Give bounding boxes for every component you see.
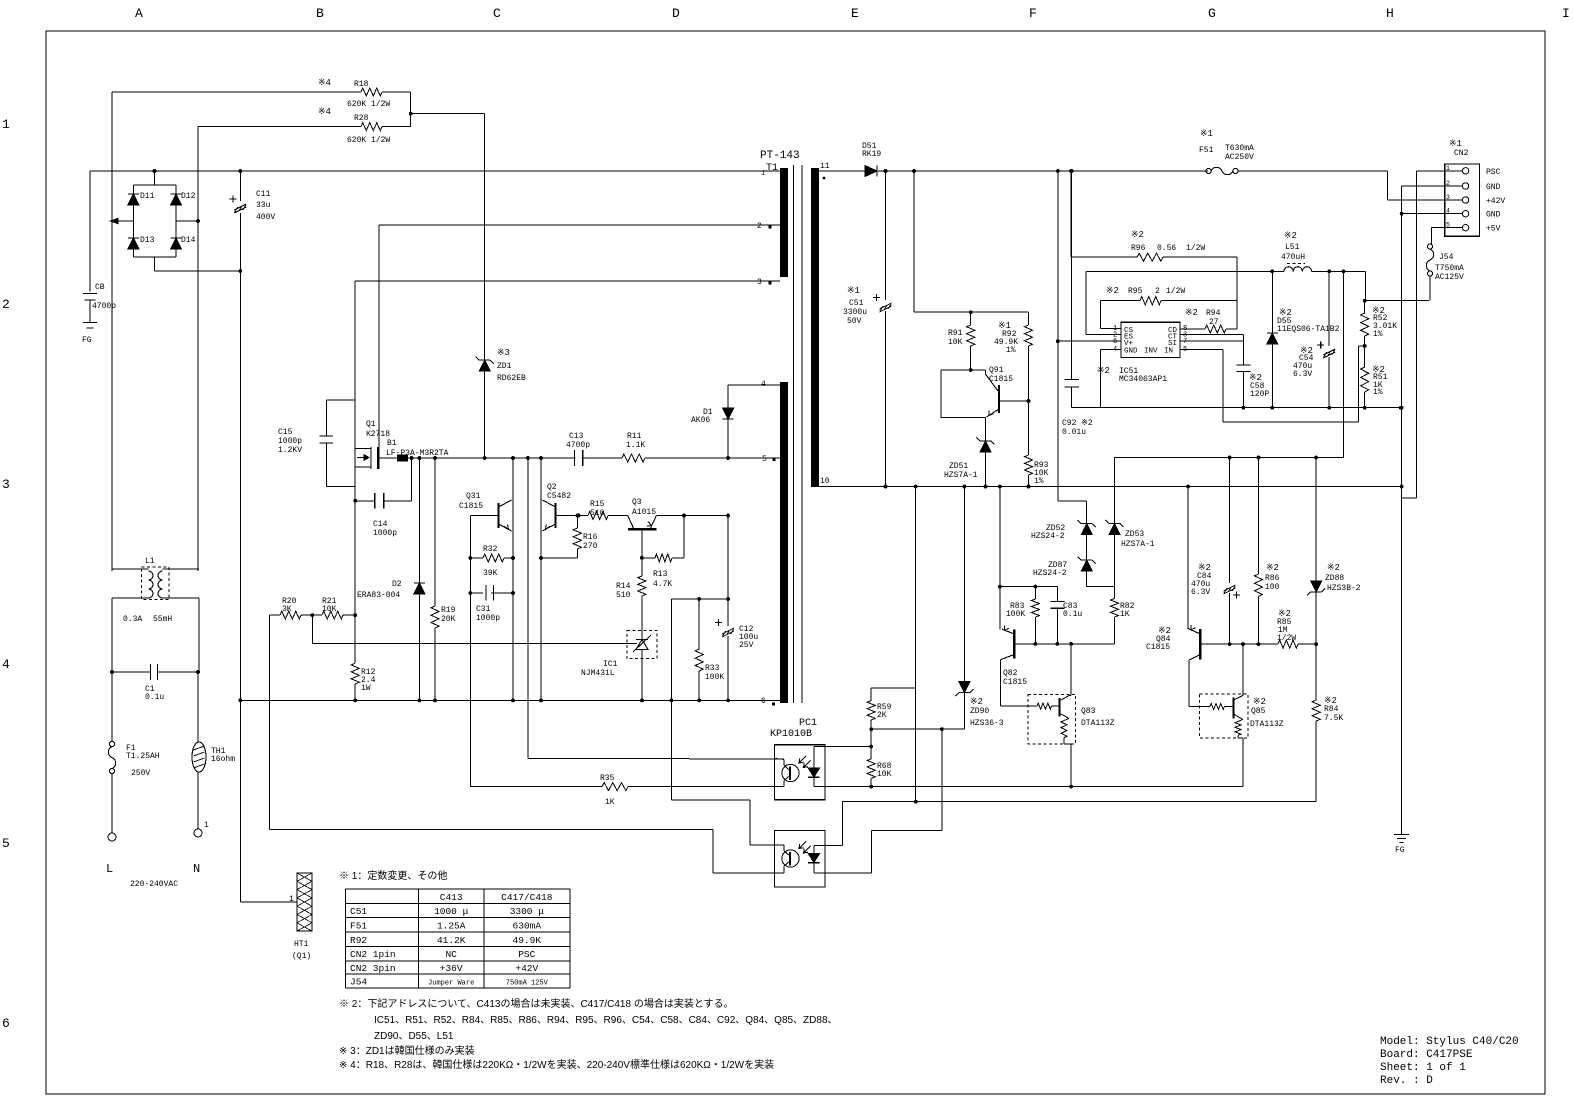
wire L51 out down column (1343, 271, 1345, 457)
svg-text:C1815: C1815 (989, 375, 1013, 384)
svg-text:HZS7A-1: HZS7A-1 (944, 471, 978, 480)
svg-text:※1: ※1 (1200, 129, 1213, 139)
svg-text:27: 27 (1209, 318, 1219, 327)
svg-text:※2: ※2 (970, 697, 983, 707)
wire PC1 top emitter R35 line (470, 786, 784, 788)
svg-text:T750mA: T750mA (1435, 264, 1464, 273)
wire +5V rail L51 input (1086, 270, 1284, 272)
svg-text:HZS3B-2: HZS3B-2 (1327, 584, 1361, 593)
resistor R94 (1180, 328, 1205, 330)
svg-text:※ 4：R18、R28は、韓国仕様は220KΩ・1/2Wを実: ※ 4：R18、R28は、韓国仕様は220KΩ・1/2Wを実装、220-240V… (339, 1058, 774, 1071)
svg-text:1.2KV: 1.2KV (278, 446, 302, 455)
svg-text:※2: ※2 (1185, 308, 1198, 318)
svg-text:ZD90: ZD90 (970, 707, 989, 716)
svg-text:※2: ※2 (1097, 366, 1110, 376)
wire bridge bottom tap (154, 257, 156, 271)
svg-text:10: 10 (820, 477, 830, 486)
svg-text:3: 3 (1446, 194, 1450, 201)
svg-text:100: 100 (1265, 583, 1280, 592)
svg-text:R84: R84 (1324, 705, 1339, 714)
zener ZD90 (963, 487, 965, 684)
svg-text:HZS7A-1: HZS7A-1 (1121, 540, 1155, 549)
svg-text:T1: T1 (766, 163, 778, 174)
svg-text:※ 2：下記アドレスについて、C413の場合は未実装、C41: ※ 2：下記アドレスについて、C413の場合は未実装、C417/C418 の場合… (339, 997, 734, 1010)
svg-text:ZD90、D55、L51: ZD90、D55、L51 (374, 1031, 454, 1042)
svg-text:3: 3 (757, 278, 762, 287)
svg-text:+42V: +42V (515, 963, 538, 974)
svg-text:IN: IN (1164, 348, 1173, 356)
svg-text:C31: C31 (476, 605, 491, 614)
svg-text:L: L (106, 862, 113, 876)
svg-text:※1: ※1 (1449, 139, 1462, 149)
wire B1 to rail (408, 457, 421, 459)
svg-text:2: 2 (1155, 287, 1160, 296)
wire C12 column (727, 516, 729, 627)
svg-text:R86: R86 (1265, 574, 1280, 583)
capacitor C31 (470, 592, 513, 594)
transistor Q2 (554, 503, 556, 528)
svg-text:1: 1 (289, 895, 294, 904)
svg-text:3K: 3K (282, 605, 292, 614)
svg-text:ERA83-004: ERA83-004 (357, 591, 400, 600)
wire x671 column (670, 599, 672, 800)
svg-text:PC1: PC1 (799, 718, 817, 729)
wire Q82 emitter column (999, 487, 1001, 630)
svg-text:Q83: Q83 (1081, 707, 1096, 716)
svg-text:Sheet: 1 of 1: Sheet: 1 of 1 (1380, 1062, 1466, 1074)
svg-text:25V: 25V (739, 641, 754, 650)
svg-text:FG: FG (82, 336, 92, 345)
terminal N (194, 829, 202, 837)
svg-text:RK19: RK19 (862, 150, 881, 159)
svg-text:Q91: Q91 (989, 366, 1004, 375)
capacitor C58 (1242, 335, 1244, 365)
svg-text:4.7K: 4.7K (653, 580, 672, 589)
wire CN2 GND pins (1402, 185, 1445, 187)
svg-text:K2718: K2718 (366, 430, 390, 439)
svg-text:NC: NC (445, 949, 457, 960)
svg-text:CN2 1pin: CN2 1pin (350, 949, 396, 960)
svg-text:※2: ※2 (1106, 286, 1119, 296)
svg-text:CN2 3pin: CN2 3pin (350, 963, 396, 974)
svg-text:C413: C413 (440, 892, 463, 903)
svg-text:A: A (135, 6, 143, 21)
wire IC51 pin1 CS (1100, 301, 1102, 329)
wire PC1 bottom anode to ctrl (814, 844, 843, 846)
svg-text:1.1K: 1.1K (626, 441, 645, 450)
svg-text:F51: F51 (1199, 146, 1214, 155)
wire startup to ZD1 (411, 113, 485, 115)
wire IC51 pin3 CT (1180, 334, 1243, 336)
resistor R52 (1364, 301, 1366, 313)
svg-text:Rev. : D: Rev. : D (1380, 1075, 1433, 1087)
svg-text:1: 1 (204, 821, 209, 830)
diode D14 (175, 221, 177, 238)
zener ZD1 (484, 114, 486, 458)
thermistor TH1 (197, 672, 199, 742)
shunt regulator IC1 (627, 630, 657, 658)
svg-text:A1015: A1015 (632, 508, 656, 517)
resistor R12 (351, 663, 359, 684)
capacitor C12 (722, 628, 734, 637)
diode D2 (418, 458, 420, 700)
svg-text:1W: 1W (361, 684, 371, 693)
svg-text:1000p: 1000p (373, 529, 397, 538)
wire +5V to R52 and J54 (1364, 271, 1366, 300)
svg-text:E: E (851, 6, 859, 21)
svg-text:R32: R32 (483, 545, 498, 554)
wire Q31 collector (512, 458, 514, 700)
svg-text:HZS24-2: HZS24-2 (1031, 532, 1065, 541)
svg-text:R19: R19 (441, 606, 456, 615)
svg-text:R18: R18 (354, 80, 369, 89)
svg-text:10K: 10K (948, 338, 963, 347)
zener ZD87 (1086, 535, 1088, 561)
svg-text:MC34063AP1: MC34063AP1 (1119, 375, 1167, 384)
svg-text:2: 2 (757, 222, 762, 231)
svg-text:4700p: 4700p (92, 302, 116, 311)
diode D51 (819, 170, 865, 172)
transistor Q85 (1200, 694, 1249, 738)
svg-text:PSC: PSC (1486, 168, 1501, 177)
svg-text:3: 3 (2, 477, 10, 492)
resistor R91 (969, 310, 973, 314)
svg-text:※2: ※2 (1284, 231, 1297, 241)
svg-text:Q31: Q31 (466, 492, 481, 501)
svg-text:C1815: C1815 (459, 502, 483, 511)
svg-text:4: 4 (1113, 346, 1117, 354)
capacitor C14 (355, 500, 375, 502)
svg-text:20K: 20K (441, 615, 456, 624)
wire IC51 pin5 IN feedback (1180, 348, 1223, 350)
wire PC1 top collector (528, 758, 784, 760)
svg-text:41.2K: 41.2K (437, 935, 466, 946)
svg-text:100K: 100K (705, 673, 724, 682)
svg-text:D13: D13 (140, 236, 155, 245)
transistor Q3 (628, 528, 656, 530)
transformer T1 secondary winding bar (811, 168, 819, 487)
wire feedthrough x527 (527, 458, 529, 759)
wire DC minus long vertical (239, 271, 241, 902)
svg-text:※2: ※2 (1253, 697, 1266, 707)
resistor R84 (1315, 644, 1317, 700)
svg-text:620K 1/2W: 620K 1/2W (347, 100, 390, 109)
svg-text:C13: C13 (569, 432, 584, 441)
svg-text:C1815: C1815 (1003, 678, 1027, 687)
svg-text:11EQS06-TA1B2: 11EQS06-TA1B2 (1277, 325, 1340, 334)
svg-text:※4: ※4 (318, 107, 331, 117)
svg-text:INV: INV (1144, 348, 1158, 356)
svg-text:0.56: 0.56 (1157, 244, 1176, 253)
resistor R19 (434, 458, 436, 606)
svg-text:R11: R11 (627, 432, 642, 441)
ground FG right (1394, 834, 1409, 836)
svg-text:(Q1): (Q1) (292, 952, 311, 961)
svg-text:Jumper Ware: Jumper Ware (428, 980, 474, 988)
IC U-IC51 box (1121, 322, 1180, 357)
resistor R28 (361, 123, 382, 131)
zener ZD53 (1114, 458, 1116, 524)
svg-text:1%: 1% (1034, 477, 1044, 486)
wire x1057 column to ZD52 (1057, 171, 1059, 501)
svg-text:R35: R35 (600, 774, 615, 783)
terminal L (108, 833, 116, 841)
svg-text:400V: 400V (256, 213, 275, 222)
svg-text:R96: R96 (1131, 244, 1146, 253)
svg-text:L1: L1 (145, 557, 155, 566)
svg-text:※ 1：定数変更、その他: ※ 1：定数変更、その他 (339, 869, 447, 882)
svg-text:R28: R28 (354, 114, 369, 123)
wire R20 left to opto emitter line (269, 615, 271, 829)
wire R28 input (198, 126, 361, 128)
wire F51 to CN2 +42V (1238, 170, 1387, 172)
capacitor C83 (1056, 587, 1058, 602)
resistor R83 (1034, 587, 1036, 599)
svg-text:1/2W: 1/2W (1277, 634, 1296, 643)
svg-text:GND: GND (1124, 348, 1138, 356)
svg-text:J54: J54 (350, 977, 367, 988)
svg-text:6: 6 (1113, 338, 1117, 346)
svg-text:※2: ※2 (1266, 563, 1279, 573)
svg-text:DTA113Z: DTA113Z (1081, 719, 1115, 728)
wire F1 to terminal L (111, 774, 113, 833)
zener ZD51 (985, 418, 987, 442)
svg-text:270: 270 (583, 542, 598, 551)
svg-text:※1: ※1 (847, 286, 860, 296)
resistor R33 (698, 599, 700, 649)
zener ZD52 (1086, 501, 1088, 524)
svg-text:D12: D12 (181, 192, 196, 201)
ferrite bead B1 (397, 455, 408, 462)
svg-text:PSC: PSC (518, 949, 535, 960)
inductor L51 (1284, 267, 1312, 272)
wire Q3 emitter rail (656, 515, 728, 517)
wire R18 to corner (382, 91, 411, 93)
svg-text:GND: GND (1486, 183, 1501, 192)
svg-text:220-240VAC: 220-240VAC (130, 880, 178, 889)
resistor R35 (602, 783, 628, 791)
svg-text:470uH: 470uH (1281, 253, 1305, 262)
svg-text:Q3: Q3 (632, 498, 642, 507)
wire ZD90 to R59 R68 junction (871, 728, 964, 730)
capacitor C84 (1229, 458, 1231, 584)
svg-text:R94: R94 (1206, 309, 1221, 318)
svg-text:Q85: Q85 (1251, 707, 1266, 716)
resistor R20 (270, 614, 280, 616)
resistor R18 (361, 88, 382, 96)
svg-text:ZD53: ZD53 (1125, 530, 1144, 539)
capacitor C15 (326, 399, 355, 401)
svg-text:1000p: 1000p (476, 614, 500, 623)
svg-text:HZS36-3: HZS36-3 (970, 719, 1004, 728)
resistor R13 (642, 557, 655, 559)
svg-text:16ohm: 16ohm (211, 755, 235, 764)
connector CN2 (1445, 164, 1480, 236)
svg-text:50V: 50V (847, 317, 862, 326)
svg-text:C1815: C1815 (1146, 643, 1170, 652)
svg-text:C92 ※2: C92 ※2 (1062, 419, 1093, 428)
svg-text:55mH: 55mH (153, 615, 172, 624)
svg-text:GND: GND (1486, 211, 1501, 220)
svg-text:250V: 250V (131, 769, 150, 778)
svg-text:※ 3：ZD1は韓国仕様のみ実装: ※ 3：ZD1は韓国仕様のみ実装 (339, 1044, 475, 1057)
wire bridge left vertical (111, 92, 113, 221)
zener ZD88 (1315, 458, 1317, 582)
transistor Q84 (1187, 487, 1189, 630)
capacitor C92 (1071, 171, 1073, 380)
svg-text:AC250V: AC250V (1225, 153, 1254, 162)
svg-text:0.1u: 0.1u (145, 693, 164, 702)
svg-text:Q1: Q1 (366, 420, 376, 429)
svg-text:HZS24-2: HZS24-2 (1033, 569, 1067, 578)
svg-text:6.3V: 6.3V (1191, 588, 1210, 597)
svg-text:R13: R13 (653, 570, 668, 579)
wire C1 to F1 (111, 672, 113, 741)
svg-text:0.1u: 0.1u (1063, 610, 1082, 619)
wire PC1 top anode (814, 746, 871, 748)
svg-text:R95: R95 (1128, 287, 1143, 296)
svg-text:5: 5 (1183, 346, 1187, 354)
svg-text:C11: C11 (256, 190, 271, 199)
wire IC51 pin2 ES (1085, 271, 1087, 334)
svg-text:C417/C418: C417/C418 (501, 892, 553, 903)
svg-text:3300 μ: 3300 μ (510, 906, 545, 917)
svg-text:HT1: HT1 (294, 940, 309, 949)
wire secondary sub-gnd rail (1072, 407, 1401, 409)
svg-text:D2: D2 (392, 580, 402, 589)
svg-text:49.9K: 49.9K (513, 935, 542, 946)
wire gate column (354, 281, 356, 663)
svg-text:Q2: Q2 (547, 483, 557, 492)
resistor R95 (1101, 300, 1140, 302)
svg-text:1/2W: 1/2W (1186, 244, 1205, 253)
wire bridge bottom rail (133, 256, 176, 258)
wire to HT1 (240, 901, 297, 903)
svg-text:IC1: IC1 (603, 660, 618, 669)
grid column letters (135, 6, 1570, 21)
capacitor CB (89, 171, 91, 292)
svg-text:100K: 100K (1006, 610, 1025, 619)
svg-text:1%: 1% (1373, 330, 1383, 339)
diode D13 (132, 221, 134, 238)
svg-text:2: 2 (1446, 180, 1450, 187)
svg-text:ZD51: ZD51 (949, 462, 968, 471)
svg-text:Model: Stylus C40/C20: Model: Stylus C40/C20 (1380, 1036, 1519, 1048)
svg-text:R33: R33 (705, 664, 720, 673)
wire TH1 to terminal N (197, 772, 199, 829)
heater HT1 (297, 873, 312, 931)
svg-text:7: 7 (1183, 338, 1187, 346)
resistor R82 (1111, 599, 1119, 617)
svg-text:120P: 120P (1250, 390, 1269, 399)
wire Q84 base rail (1200, 643, 1278, 645)
wire +5V sense rail (1115, 457, 1344, 459)
svg-text:+36V: +36V (440, 963, 463, 974)
resistor R85 (1278, 640, 1298, 648)
svg-text:33u: 33u (256, 201, 271, 210)
wire bridge right vertical (197, 127, 199, 221)
capacitor C1 (112, 671, 198, 673)
svg-text:R91: R91 (948, 329, 963, 338)
svg-text:T1.25AH: T1.25AH (126, 752, 160, 761)
transistor Q31 (470, 515, 497, 517)
resistor R16 (575, 514, 579, 518)
resistor R14 (641, 529, 643, 576)
resistor R21 (310, 613, 314, 617)
resistor R96 (1070, 171, 1072, 257)
svg-text:AK06: AK06 (691, 416, 710, 425)
svg-text:I: I (1562, 6, 1570, 21)
wire T1 pin 5 rail (379, 457, 780, 459)
svg-text:1: 1 (2, 117, 10, 132)
svg-text:C51: C51 (350, 906, 367, 917)
wire CN2 pin1 PSC (1417, 170, 1445, 172)
wire T1 pin 3 to gate network (355, 280, 780, 282)
transistor Q83 (1028, 694, 1076, 744)
resistor R32 (470, 557, 483, 559)
wire PC1 top cathode PSC line (814, 786, 1243, 788)
wire R18 input (112, 91, 361, 93)
svg-text:D11: D11 (140, 192, 155, 201)
wire Q82 base rail (1014, 643, 1114, 645)
wire T1 pin 2 to Q1 drain (379, 224, 780, 226)
ground FG left (83, 322, 97, 324)
svg-text:630mA: 630mA (513, 920, 542, 931)
svg-text:ZD1: ZD1 (497, 362, 512, 371)
svg-text:750mA 125V: 750mA 125V (506, 980, 549, 988)
svg-text:G: G (1208, 6, 1216, 21)
wire IC51 pin4 GND (1101, 348, 1122, 350)
diode D55 (1271, 271, 1273, 333)
svg-text:C15: C15 (278, 428, 293, 437)
wire T1 pin 6 rail (240, 699, 780, 701)
svg-text:※2: ※2 (1131, 230, 1144, 240)
svg-text:H: H (1386, 6, 1394, 21)
svg-text:FG: FG (1395, 846, 1405, 855)
svg-text:B: B (316, 6, 324, 21)
svg-text:0.3A: 0.3A (123, 615, 142, 624)
wire R28 output (382, 126, 411, 128)
wire PC1 bottom cathode (814, 872, 872, 874)
svg-text:C5482: C5482 (547, 492, 571, 501)
svg-text:R15: R15 (590, 500, 605, 509)
wire R18/R28 joining vertical (410, 92, 412, 127)
wire R83 C83 top rail (1000, 586, 1058, 588)
svg-text:※2: ※2 (1327, 563, 1340, 573)
svg-text:510: 510 (590, 509, 605, 518)
optocoupler PC1 bottom (775, 831, 825, 888)
svg-text:39K: 39K (483, 569, 498, 578)
svg-text:NJM431L: NJM431L (581, 669, 615, 678)
inductor L1 common mode choke (142, 567, 170, 600)
wire x914 down (913, 171, 915, 312)
svg-text:6: 6 (761, 697, 766, 706)
svg-text:10K: 10K (322, 605, 337, 614)
wire AC top rail to T1 pin 1 (90, 170, 780, 172)
svg-text:1%: 1% (1373, 388, 1383, 397)
wire R13 right vertical (683, 516, 685, 558)
svg-text:C51: C51 (849, 299, 864, 308)
svg-text:RD62EB: RD62EB (497, 374, 526, 383)
wire IC51 pin7 SI (1180, 340, 1243, 342)
svg-text:L51: L51 (1285, 243, 1300, 252)
jumper J54 (1432, 227, 1445, 229)
svg-text:5: 5 (2, 836, 10, 851)
resistor R59 (870, 688, 872, 701)
svg-text:N: N (193, 862, 200, 876)
diode D1 (727, 385, 729, 458)
svg-text:1/2W: 1/2W (1166, 287, 1185, 296)
